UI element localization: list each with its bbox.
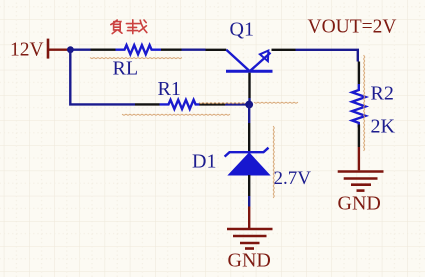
wire 12V port to node bbox=[47, 49, 68, 51]
svg-text:GND: GND bbox=[338, 193, 381, 215]
svg-text:R1: R1 bbox=[158, 78, 181, 100]
label D1 bbox=[192, 151, 216, 173]
resistor R1 body bbox=[160, 100, 201, 109]
wire base pin to node B bbox=[248, 98, 250, 105]
resistor R2 pin 1 bbox=[358, 62, 360, 85]
resistor RL pin 2 bbox=[161, 49, 182, 51]
node B junction dot bbox=[245, 101, 253, 109]
wire node A down and right to R1 bbox=[70, 50, 135, 105]
power port 12V bar bbox=[47, 39, 50, 59]
transistor Q1 base pin bbox=[248, 73, 250, 98]
label GND right bbox=[338, 193, 381, 215]
label 2K bbox=[371, 116, 396, 138]
svg-text:2K: 2K bbox=[371, 116, 396, 138]
resistor R2 body bbox=[352, 84, 365, 127]
wire Q1 to VOUT corner bbox=[296, 50, 358, 62]
ground left symbol bbox=[227, 229, 273, 249]
label GND left bbox=[228, 250, 271, 272]
ground left stem bbox=[248, 207, 250, 229]
resistor RL pin 1 bbox=[91, 49, 116, 51]
ground right stem bbox=[358, 147, 360, 170]
compile-mark squiggle under RL bbox=[90, 58, 182, 59]
node A junction dot bbox=[67, 46, 74, 53]
wire node A to RL bbox=[70, 49, 90, 51]
label 12V bbox=[10, 40, 44, 61]
wire node B to D1 bbox=[248, 105, 250, 124]
svg-text:12V: 12V bbox=[10, 40, 44, 61]
zener diode D1 body bbox=[225, 148, 270, 175]
svg-text:D1: D1 bbox=[192, 151, 216, 173]
compile-mark squiggle along R2 bbox=[364, 55, 365, 151]
svg-text:Q1: Q1 bbox=[230, 19, 254, 41]
ground right symbol bbox=[338, 172, 384, 191]
label 2.7V bbox=[274, 168, 312, 189]
label 负载 (load) bbox=[111, 20, 147, 34]
svg-text:R2: R2 bbox=[371, 83, 394, 105]
label R1 bbox=[158, 78, 181, 100]
compile-mark squiggle under R1 wire bbox=[122, 114, 230, 115]
diode D1 pin 1 bbox=[248, 123, 250, 151]
resistor R1 pin 2 bbox=[200, 103, 226, 105]
svg-text:RL: RL bbox=[113, 58, 139, 80]
label VOUT=2V bbox=[308, 17, 397, 38]
wire RL to Q1 bbox=[182, 49, 206, 51]
wire D1 to ground left bbox=[248, 196, 250, 207]
transistor Q1 emitter pin bbox=[272, 49, 296, 51]
svg-text:VOUT=2V: VOUT=2V bbox=[308, 17, 397, 38]
transistor Q1 collector pin bbox=[206, 49, 227, 51]
diode D1 pin 2 bbox=[248, 175, 250, 196]
compile-mark squiggle along D1 bbox=[273, 126, 274, 198]
label R2 bbox=[371, 83, 394, 105]
svg-text:GND: GND bbox=[228, 250, 271, 272]
resistor R1 pin 1 bbox=[135, 103, 160, 105]
label RL bbox=[113, 58, 139, 80]
compile-mark squiggle on wire left of node B bbox=[199, 103, 245, 104]
wire R1 to node B bbox=[225, 103, 246, 105]
svg-text:2.7V: 2.7V bbox=[274, 168, 312, 189]
resistor R2 pin 2 bbox=[358, 125, 360, 148]
label Q1 bbox=[230, 19, 254, 41]
resistor RL body bbox=[116, 45, 162, 54]
transistor Q1 body bbox=[226, 50, 273, 72]
compile-mark squiggle right of node B bbox=[254, 102, 298, 103]
